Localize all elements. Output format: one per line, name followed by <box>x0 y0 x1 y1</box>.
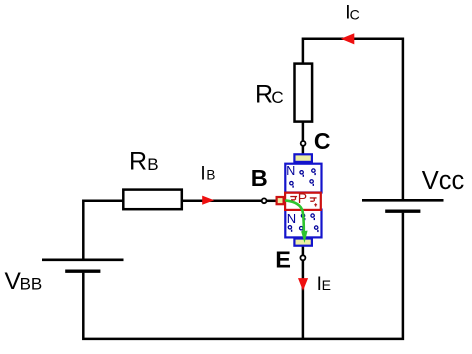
svg-text:B: B <box>206 168 215 183</box>
svg-text:R: R <box>255 81 273 109</box>
svg-text:N: N <box>286 164 295 178</box>
svg-text:I: I <box>200 163 205 184</box>
svg-text:E: E <box>275 247 291 273</box>
svg-text:P: P <box>298 190 307 206</box>
svg-text:BB: BB <box>20 274 43 293</box>
svg-text:C: C <box>350 7 360 23</box>
svg-text:Vcc: Vcc <box>422 167 465 195</box>
svg-text:R: R <box>129 147 147 175</box>
svg-text:B: B <box>251 165 268 191</box>
svg-text:C: C <box>271 88 283 107</box>
svg-text:B: B <box>147 155 158 174</box>
svg-text:C: C <box>314 128 331 154</box>
svg-text:N: N <box>287 211 296 226</box>
svg-text:E: E <box>322 277 331 293</box>
